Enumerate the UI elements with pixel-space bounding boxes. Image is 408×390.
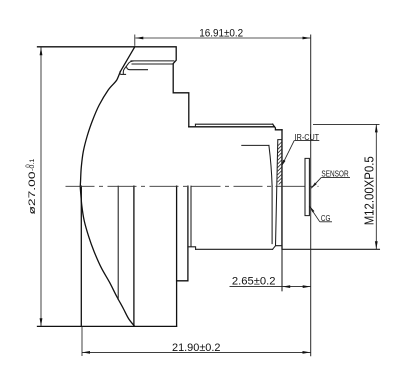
svg-text:M12.00XP0.5: M12.00XP0.5 — [361, 156, 376, 225]
svg-text:21.90±0.2: 21.90±0.2 — [172, 342, 221, 354]
svg-text:ø27.00: ø27.00 — [27, 172, 38, 215]
svg-text:CG: CG — [321, 214, 331, 223]
svg-text:IR-CUT: IR-CUT — [295, 133, 320, 142]
svg-text:-0.1: -0.1 — [29, 158, 36, 171]
svg-text:16.91±0.2: 16.91±0.2 — [199, 27, 243, 39]
svg-text:2.65±0.2: 2.65±0.2 — [232, 276, 276, 288]
svg-text:SENSOR: SENSOR — [321, 169, 348, 178]
